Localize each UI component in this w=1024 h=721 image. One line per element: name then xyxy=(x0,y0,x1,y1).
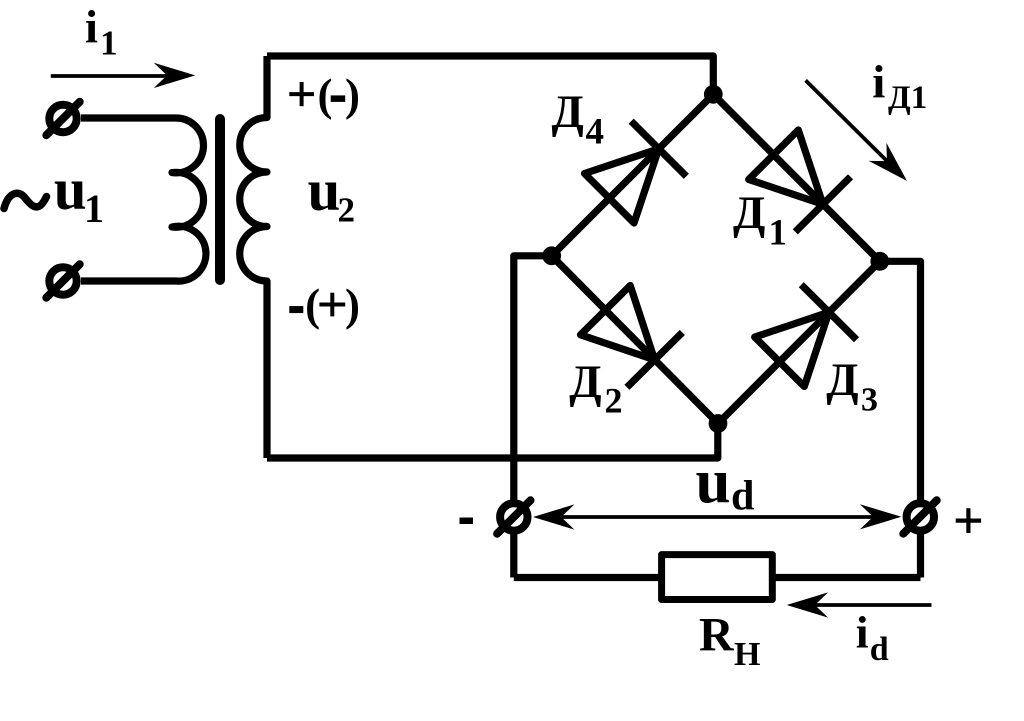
terminal: primary bottom xyxy=(46,264,79,297)
svg-text:i: i xyxy=(85,3,98,54)
diode Д2 xyxy=(578,283,683,388)
svg-text:(: ( xyxy=(305,280,320,330)
arrow i1 current direction xyxy=(51,63,195,88)
label tilde of source xyxy=(4,193,47,208)
terminal: output minus xyxy=(497,500,530,533)
svg-text:1: 1 xyxy=(100,24,118,63)
svg-text:): ) xyxy=(345,280,360,330)
svg-text:3: 3 xyxy=(861,381,878,418)
svg-text:u: u xyxy=(308,157,341,223)
svg-text:Д: Д xyxy=(569,356,601,408)
node: bridge right junction xyxy=(870,252,889,271)
svg-text:R: R xyxy=(699,609,735,662)
label plus at right output xyxy=(956,508,981,533)
svg-text:u: u xyxy=(696,446,731,516)
wire: bottom AC from secondary to bridge bottom node xyxy=(267,424,718,459)
svg-text:d: d xyxy=(731,474,754,520)
svg-text:Д: Д xyxy=(826,354,858,406)
wire: top rail from secondary to bridge top node xyxy=(267,56,713,94)
svg-text:u: u xyxy=(54,156,87,222)
svg-text:i: i xyxy=(856,607,869,658)
svg-text:Д: Д xyxy=(552,86,584,138)
wire: right output from right node down to bottom rail xyxy=(880,261,921,577)
label minus at left output xyxy=(460,518,474,525)
node: bridge top junction xyxy=(704,85,723,104)
terminal: primary top xyxy=(46,102,79,135)
label secondary polarity bottom: -(+) xyxy=(289,280,360,330)
diode Д3 xyxy=(752,285,857,390)
svg-text:1: 1 xyxy=(769,213,788,254)
svg-text:1: 1 xyxy=(84,186,104,231)
svg-text:H: H xyxy=(734,636,760,673)
svg-text:Д1: Д1 xyxy=(888,80,927,116)
svg-text:4: 4 xyxy=(586,112,605,153)
transformer T1 secondary winding with leads xyxy=(240,56,267,458)
arrow id current direction xyxy=(787,592,932,617)
label secondary polarity top: +(-) xyxy=(289,70,360,120)
svg-text:2: 2 xyxy=(605,381,623,421)
wire: left output from left node down to bottom rail xyxy=(514,256,552,578)
wire: bridge arm bottom-right xyxy=(718,261,880,423)
svg-text:(: ( xyxy=(318,70,333,120)
node: bridge left junction xyxy=(542,246,561,265)
arrow iД1 current direction xyxy=(806,80,916,190)
wire: bridge arm left-bottom xyxy=(552,256,718,424)
node: bridge bottom junction xyxy=(709,414,728,433)
svg-text:Д: Д xyxy=(733,187,765,239)
wire: bottom rail with load xyxy=(514,574,921,581)
svg-text:d: d xyxy=(870,631,889,668)
resistor RH (load) xyxy=(662,555,773,600)
diode Д4 xyxy=(582,121,687,226)
arrow ud voltage measurement double-headed xyxy=(533,504,901,529)
transformer T1 primary winding with leads xyxy=(81,118,206,281)
diode Д1 xyxy=(746,127,851,232)
svg-text:): ) xyxy=(345,70,360,120)
transformer T1 core xyxy=(215,119,225,280)
wire: bridge arm left-top xyxy=(552,94,714,256)
terminal: output plus xyxy=(903,500,936,533)
svg-text:2: 2 xyxy=(338,191,356,230)
wire: bridge arm top-right xyxy=(713,94,880,261)
svg-text:i: i xyxy=(872,57,885,109)
